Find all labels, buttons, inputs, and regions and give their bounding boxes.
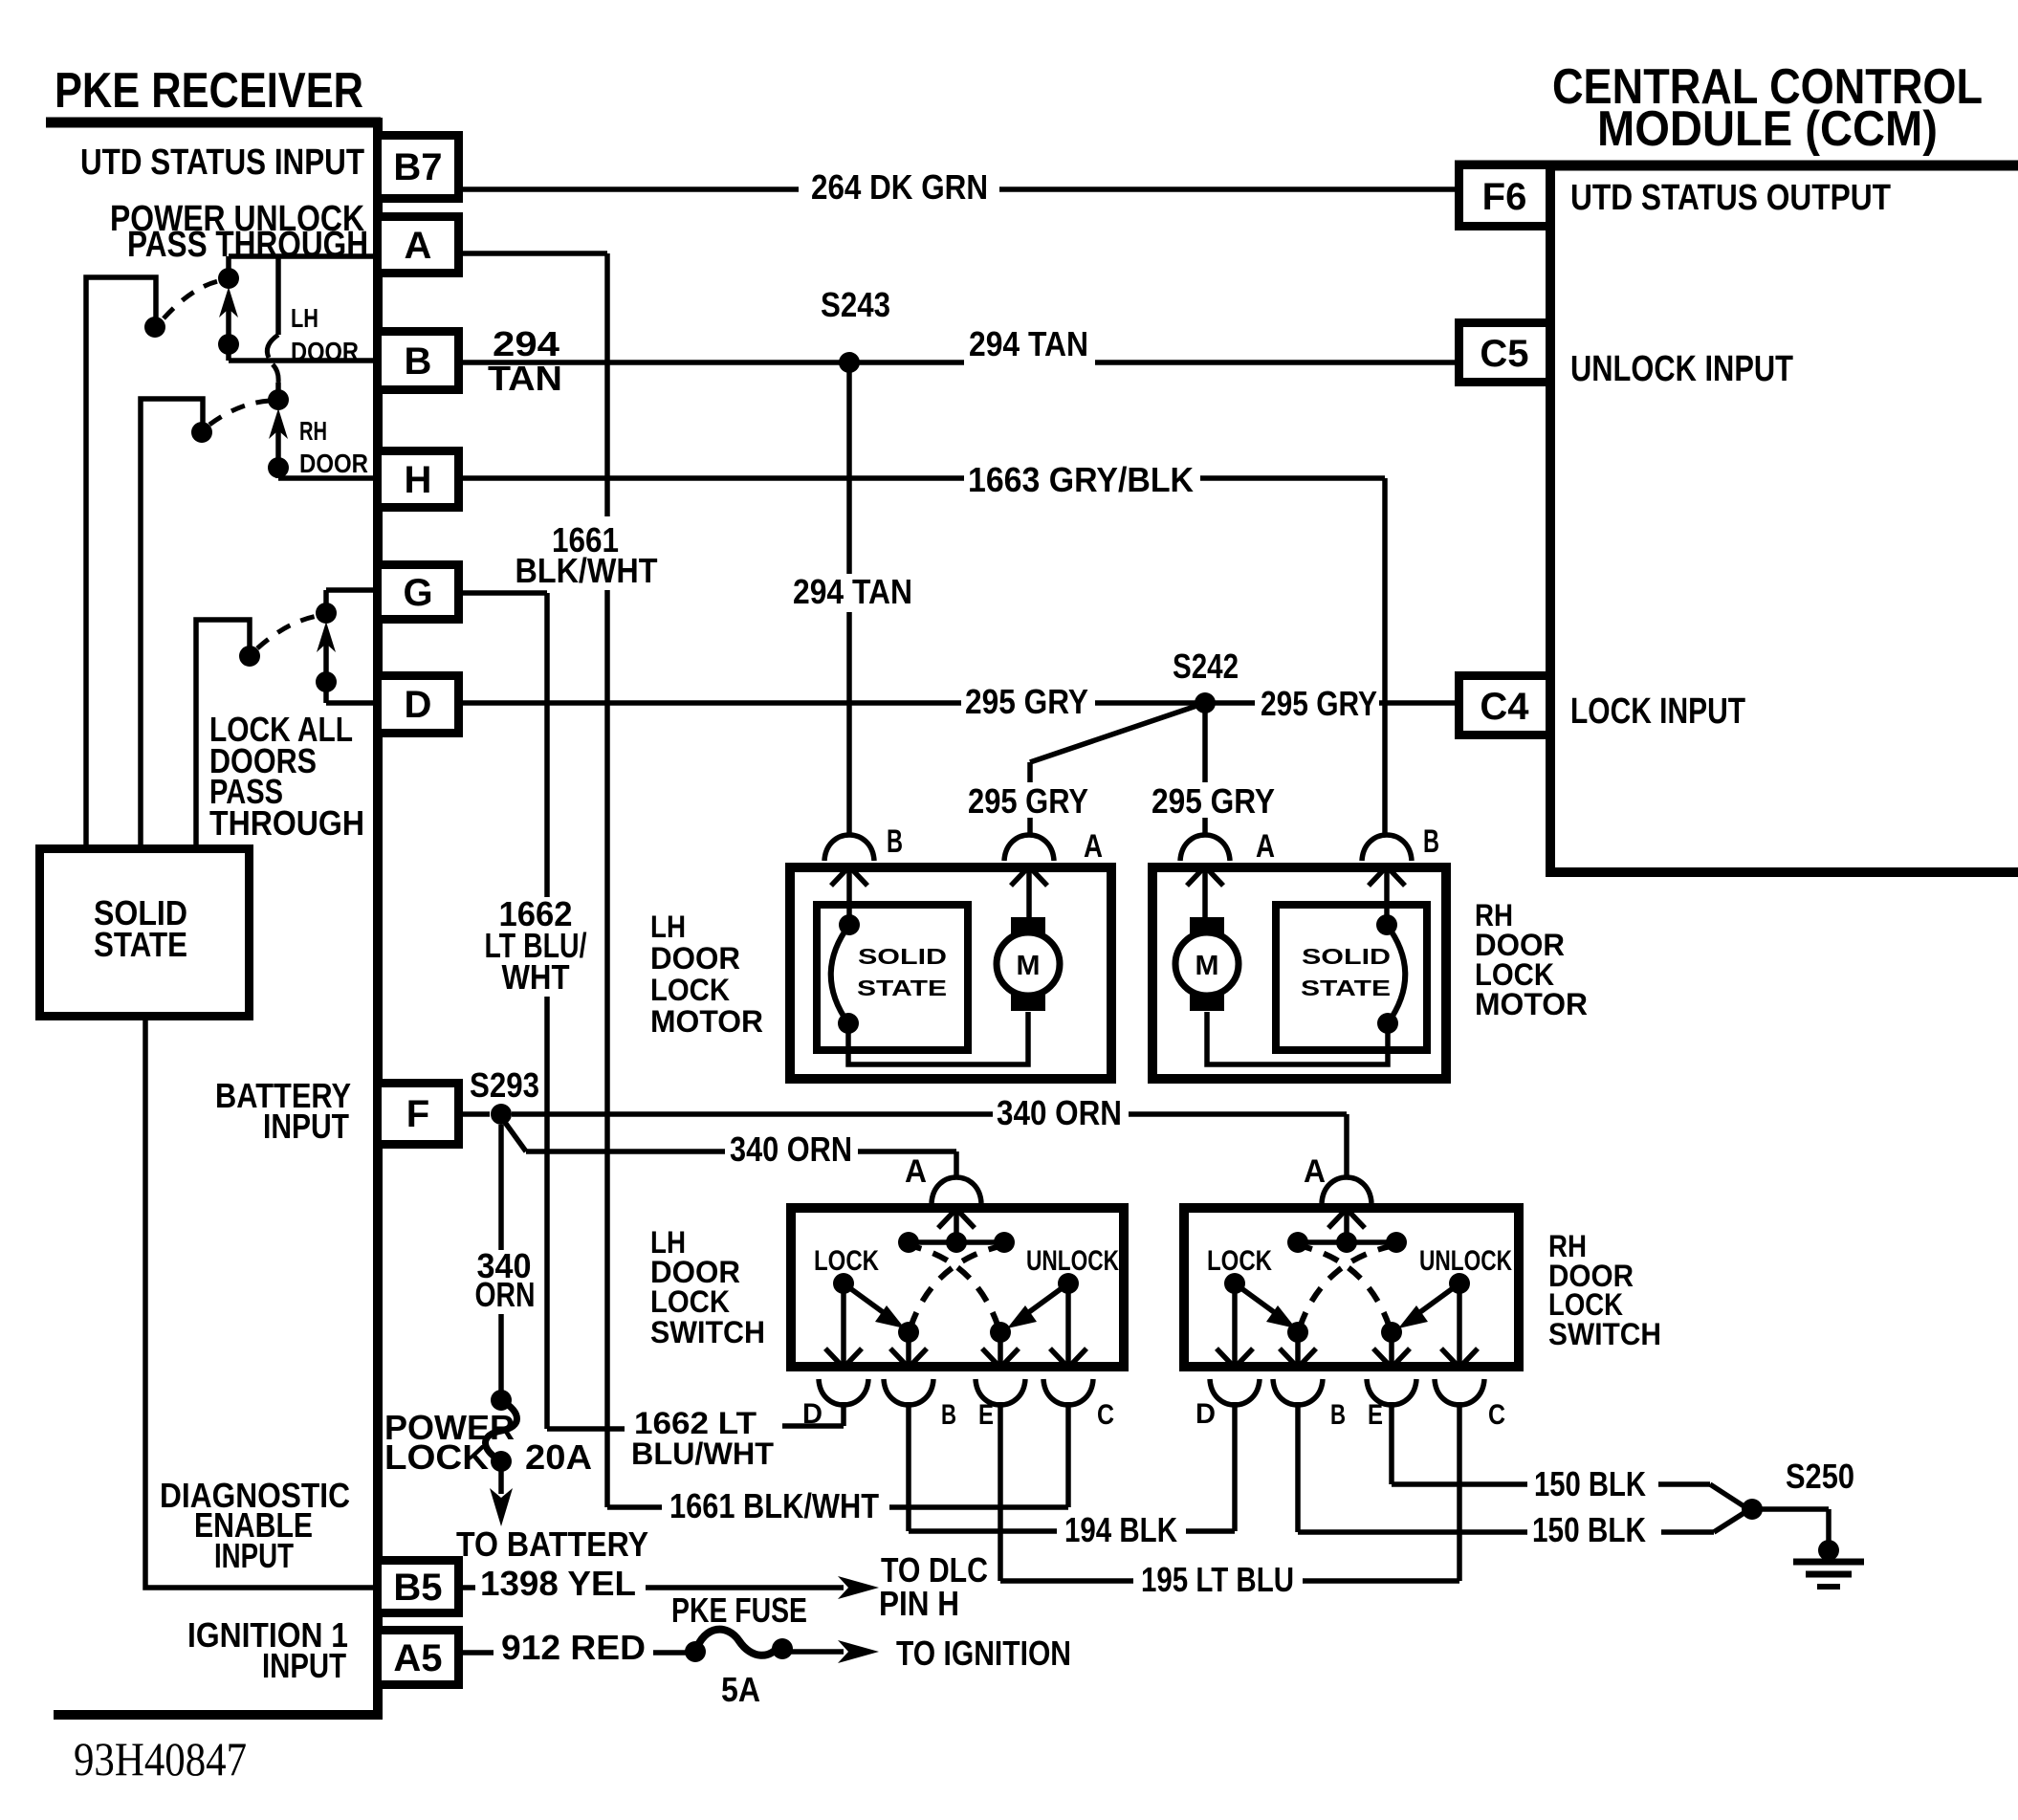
svg-text:TO BATTERY: TO BATTERY — [456, 1524, 648, 1564]
LH switch moving dot B — [898, 1322, 919, 1343]
svg-text:D: D — [1195, 1398, 1216, 1430]
svg-text:WHT: WHT — [502, 957, 570, 997]
RH motor pin A chevron — [1187, 866, 1223, 886]
wire S250 to ground — [1760, 1506, 1829, 1512]
lock-all lower dot — [316, 671, 337, 692]
svg-text:1398 YEL: 1398 YEL — [480, 1564, 636, 1603]
svg-text:150 BLK: 150 BLK — [1534, 1464, 1646, 1503]
svg-text:M: M — [1017, 951, 1041, 981]
svg-text:B: B — [1423, 823, 1439, 860]
svg-text:150 BLK: 150 BLK — [1532, 1510, 1646, 1549]
LH switch dashed throw left — [910, 1246, 1000, 1327]
svg-text:ORN: ORN — [475, 1275, 536, 1314]
ground symbol — [1818, 1540, 1839, 1561]
svg-text:S243: S243 — [821, 285, 890, 324]
PKE receiver connector bus — [373, 118, 383, 1715]
svg-text:A: A — [405, 225, 432, 267]
svg-text:TO IGNITION: TO IGNITION — [896, 1634, 1071, 1673]
svg-text:264 DK GRN: 264 DK GRN — [811, 167, 988, 207]
connector pin F6 — [1459, 165, 1550, 227]
svg-text:DOOR: DOOR — [650, 941, 740, 976]
wire 340 ORN down to fuse — [498, 1125, 504, 1250]
RH motor M motor — [1190, 917, 1224, 939]
LH switch pin C stem — [1065, 1283, 1071, 1367]
wire 1661 BLK/WHT from pin A — [463, 251, 607, 256]
wire 150 BLK lower — [1295, 1402, 1301, 1532]
LH door lock switch box — [791, 1208, 1124, 1367]
svg-text:STATE: STATE — [857, 976, 947, 1000]
svg-text:THROUGH: THROUGH — [209, 803, 364, 843]
svg-text:MODULE (CCM): MODULE (CCM) — [1597, 101, 1938, 157]
wire 1663 GRY/BLK — [463, 475, 964, 481]
svg-text:E: E — [1368, 1399, 1383, 1431]
splice S242 — [1195, 692, 1216, 713]
RH motor switch lower dot — [1377, 1013, 1398, 1034]
lock-all switch contact dot — [316, 603, 337, 624]
RH door lock motor box — [1152, 867, 1446, 1079]
RH door switch pivot dot — [191, 422, 212, 443]
svg-text:295 GRY: 295 GRY — [1152, 781, 1275, 821]
CCM connector bus — [1546, 161, 1555, 872]
RH motor pin A bump — [1180, 835, 1230, 861]
LH motor pin B chevron — [831, 866, 867, 886]
svg-text:295 GRY: 295 GRY — [965, 682, 1088, 721]
wire 1662 LT BLU/WHT from pin G — [463, 590, 547, 596]
svg-text:STATE: STATE — [1301, 976, 1391, 1000]
RH switch UNLOCK contact dot — [1449, 1273, 1470, 1294]
LH motor M motor — [1011, 917, 1045, 939]
wire 1398 YEL — [463, 1585, 475, 1590]
connector pin B — [378, 332, 459, 390]
svg-text:295 GRY: 295 GRY — [1261, 684, 1377, 723]
connector pin B5 — [378, 1561, 459, 1613]
svg-text:B7: B7 — [393, 146, 442, 188]
svg-text:INPUT: INPUT — [214, 1536, 294, 1575]
wire 295 GRY to LH motor A — [1030, 703, 1205, 762]
svg-text:UNLOCK INPUT: UNLOCK INPUT — [1570, 349, 1793, 389]
RH switch pin A bump — [1322, 1177, 1371, 1203]
svg-text:MOTOR: MOTOR — [650, 1004, 763, 1039]
svg-text:SOLID: SOLID — [1302, 944, 1391, 969]
LH motor pin B bump — [824, 835, 874, 861]
connector pin B7 — [378, 136, 459, 199]
connector pin H — [378, 451, 459, 508]
RH switch pin E stem — [1389, 1332, 1394, 1367]
PKE receiver bottom edge — [54, 1710, 383, 1720]
RH motor inner solid state box — [1276, 905, 1427, 1050]
LH switch pin A chevron — [938, 1209, 975, 1228]
wire 1661 BLK/WHT bottom — [607, 1504, 662, 1510]
LH switch UNLOCK contact dot — [1058, 1273, 1079, 1294]
connector pin G — [378, 565, 459, 620]
wire 295 GRY pin D — [463, 700, 961, 706]
RH switch contact bar — [1298, 1239, 1396, 1245]
svg-text:PKE FUSE: PKE FUSE — [671, 1590, 807, 1630]
svg-text:G: G — [403, 572, 432, 614]
LH door lock motor box — [790, 867, 1111, 1079]
svg-text:20A: 20A — [525, 1437, 592, 1477]
wire hop squiggle at B wire — [267, 335, 278, 358]
lock-all switch pivot dot — [239, 646, 260, 667]
LH switch dashed throw right — [912, 1246, 998, 1327]
wire to RH contact dot — [275, 383, 281, 391]
LH motor pin A bump — [1004, 835, 1054, 861]
wire 295 GRY to RH motor A — [1202, 711, 1208, 782]
RH motor pin B bump — [1362, 835, 1412, 861]
LH motor switch upper dot — [839, 914, 860, 935]
RH door lower dot — [268, 457, 289, 478]
wire 294 TAN pin B — [463, 360, 964, 365]
RH motor internal wire — [1207, 1012, 1388, 1064]
svg-text:S293: S293 — [470, 1065, 539, 1105]
svg-text:1662 LT: 1662 LT — [634, 1406, 757, 1440]
wire 1662 LT BLU/WHT bottom — [547, 1426, 625, 1432]
LH door switch contact dot — [218, 268, 239, 289]
svg-text:D: D — [405, 684, 432, 726]
svg-text:340 ORN: 340 ORN — [730, 1129, 852, 1169]
LH motor switch arc — [831, 925, 849, 1023]
splice S243 — [839, 352, 860, 373]
svg-text:UNLOCK: UNLOCK — [1419, 1245, 1512, 1277]
svg-text:DOOR: DOOR — [299, 449, 368, 478]
svg-text:C4: C4 — [1480, 686, 1529, 728]
LH door switch dashed arm — [164, 281, 218, 318]
svg-text:B: B — [941, 1399, 956, 1431]
svg-text:B: B — [887, 823, 903, 860]
svg-text:294: 294 — [493, 324, 559, 363]
LH switch contact bar — [909, 1239, 1004, 1245]
svg-text:UTD STATUS INPUT: UTD STATUS INPUT — [80, 143, 364, 183]
svg-text:LOCK: LOCK — [1207, 1245, 1272, 1277]
splice S293 — [491, 1104, 512, 1125]
svg-text:294 TAN: 294 TAN — [969, 324, 1088, 363]
svg-text:1663 GRY/BLK: 1663 GRY/BLK — [968, 460, 1194, 499]
RH switch pin C stem — [1457, 1283, 1462, 1367]
svg-text:PKE RECEIVER: PKE RECEIVER — [55, 63, 363, 119]
svg-text:F6: F6 — [1482, 176, 1527, 218]
LH switch pin A bump — [932, 1177, 981, 1203]
wire lock-all pivot to solid state — [196, 620, 250, 844]
svg-text:BLK/WHT: BLK/WHT — [515, 551, 658, 590]
wire solid state to pin B5 — [145, 1020, 378, 1588]
wire 194 BLK — [906, 1402, 911, 1531]
RH switch dashed throw right — [1302, 1246, 1390, 1327]
LH motor switch lower dot — [838, 1013, 859, 1034]
RH motor switch upper dot — [1376, 914, 1397, 935]
lock-all switch dashed arm — [257, 616, 318, 648]
svg-text:MOTOR: MOTOR — [1475, 987, 1588, 1021]
wire lock-all to pin D — [323, 682, 329, 703]
wire 295 GRY to C4 — [1213, 700, 1255, 706]
LH switch UNLOCK arrow — [1022, 1283, 1068, 1317]
RH switch pin A chevron — [1328, 1209, 1365, 1228]
RH motor switch arc — [1387, 925, 1405, 1023]
wire pin F to S293 — [463, 1111, 490, 1117]
connector pin C4 — [1459, 676, 1550, 735]
LH door switch pivot dot — [144, 317, 165, 338]
splice S250 — [1742, 1499, 1763, 1520]
wire contact to pin A line — [226, 256, 231, 271]
lock-all arrow — [323, 641, 329, 675]
LH door lower dot — [218, 334, 239, 355]
svg-text:294 TAN: 294 TAN — [793, 572, 912, 611]
RH switch dashed throw left — [1300, 1246, 1391, 1327]
wire contact to pin G — [323, 590, 329, 605]
LH motor inner solid state box — [817, 905, 968, 1050]
svg-text:LH: LH — [650, 910, 686, 944]
svg-text:S250: S250 — [1786, 1457, 1854, 1496]
svg-text:RH: RH — [299, 416, 327, 446]
wire LH pivot to solid state — [86, 277, 156, 844]
svg-text:LOCK INPUT: LOCK INPUT — [1570, 691, 1745, 732]
wire LH door to pin B — [226, 344, 231, 361]
RH door switch contact dot — [268, 389, 289, 410]
svg-text:M: M — [1195, 951, 1219, 981]
svg-text:C: C — [1097, 1399, 1114, 1431]
LH switch moving dot E — [990, 1322, 1011, 1343]
LH switch pin B stem — [906, 1332, 911, 1367]
connector pin A5 — [378, 1631, 459, 1685]
arrow to ignition — [790, 1649, 844, 1655]
svg-text:SWITCH: SWITCH — [1548, 1317, 1661, 1351]
svg-text:LH: LH — [291, 303, 318, 333]
connector pin F — [378, 1084, 459, 1145]
svg-text:295 GRY: 295 GRY — [968, 781, 1088, 821]
svg-text:SOLID: SOLID — [858, 944, 947, 969]
CCM top edge — [1455, 161, 2018, 171]
LH door arrow — [226, 306, 231, 340]
RH switch moving dot B — [1287, 1322, 1308, 1343]
svg-text:A: A — [1304, 1153, 1326, 1190]
wire branch down to RH contact — [275, 256, 281, 335]
svg-text:5A: 5A — [721, 1670, 760, 1709]
LH motor pin A chevron — [1011, 866, 1047, 886]
svg-text:UTD STATUS OUTPUT: UTD STATUS OUTPUT — [1570, 178, 1891, 218]
svg-text:E: E — [978, 1399, 994, 1431]
wire 912 RED — [463, 1650, 494, 1656]
svg-text:912 RED: 912 RED — [501, 1628, 646, 1667]
LH motor internal wire — [848, 1012, 1028, 1064]
svg-text:194 BLK: 194 BLK — [1064, 1510, 1177, 1549]
connector pin A — [378, 217, 459, 274]
connector pin D — [378, 676, 459, 734]
RH switch LOCK arrow — [1235, 1283, 1281, 1317]
svg-text:LOCK: LOCK — [650, 1284, 730, 1319]
svg-text:A: A — [1256, 828, 1275, 865]
RH motor pin B chevron — [1369, 866, 1405, 886]
connector pin C5 — [1459, 323, 1550, 383]
svg-text:C5: C5 — [1480, 333, 1528, 375]
RH switch pin B stem — [1295, 1332, 1301, 1367]
svg-text:195 LT BLU: 195 LT BLU — [1141, 1560, 1294, 1599]
solid state module box — [40, 849, 250, 1017]
arrow to battery — [498, 1461, 504, 1494]
svg-text:A: A — [1084, 828, 1103, 865]
wire 264 DK GRN — [463, 186, 799, 192]
svg-text:340 ORN: 340 ORN — [997, 1093, 1122, 1132]
svg-text:LOCK: LOCK — [814, 1245, 879, 1277]
RH switch pin D stem — [1232, 1283, 1238, 1367]
svg-text:B5: B5 — [393, 1567, 442, 1609]
svg-text:B: B — [1330, 1399, 1346, 1431]
PKE receiver top underline — [46, 118, 381, 128]
svg-text:STATE: STATE — [94, 925, 187, 964]
svg-text:INPUT: INPUT — [263, 1107, 349, 1146]
svg-text:A5: A5 — [393, 1637, 442, 1679]
svg-text:INPUT: INPUT — [262, 1646, 346, 1685]
svg-text:C: C — [1488, 1399, 1505, 1431]
LH switch LOCK arrow — [844, 1283, 889, 1317]
RH switch moving dot E — [1381, 1322, 1402, 1343]
RH switch LOCK contact dot — [1224, 1273, 1245, 1294]
LH switch pin E stem — [998, 1332, 1003, 1367]
wire RH door to pin H — [275, 468, 281, 478]
svg-text:F: F — [406, 1093, 429, 1135]
wire RH pivot to solid state — [141, 399, 203, 844]
LH switch pin bumps — [819, 1379, 868, 1405]
svg-text:LOCK: LOCK — [384, 1437, 489, 1477]
svg-text:B: B — [405, 340, 432, 383]
LH switch LOCK contact dot — [833, 1273, 854, 1294]
svg-text:PIN H: PIN H — [879, 1584, 959, 1623]
LH switch pin D stem — [841, 1283, 846, 1367]
wire 150 BLK upper — [1389, 1402, 1394, 1484]
RH switch UNLOCK arrow — [1414, 1283, 1459, 1317]
RH door lock switch box — [1184, 1208, 1519, 1367]
svg-text:TAN: TAN — [488, 359, 562, 398]
wire 340 ORN upper — [512, 1111, 993, 1117]
svg-text:1661 BLK/WHT: 1661 BLK/WHT — [669, 1486, 879, 1525]
svg-text:BLU/WHT: BLU/WHT — [631, 1436, 774, 1471]
RH switch pin bumps — [1210, 1379, 1260, 1405]
svg-text:S242: S242 — [1173, 647, 1239, 686]
wire 195 LT BLU — [998, 1402, 1003, 1581]
POWER LOCK fuse 20A — [491, 1390, 512, 1411]
svg-text:93H40847: 93H40847 — [74, 1732, 247, 1786]
svg-text:A: A — [905, 1153, 927, 1190]
wire 294 TAN down to LH motor — [846, 362, 852, 574]
wire 340 ORN lower — [501, 1117, 526, 1151]
CCM bottom edge — [1546, 867, 2018, 877]
svg-text:LOCK: LOCK — [650, 973, 730, 1007]
RH door arrow — [275, 428, 281, 461]
RH door switch dashed arm — [209, 401, 270, 425]
svg-text:UNLOCK: UNLOCK — [1026, 1245, 1119, 1277]
svg-text:SWITCH: SWITCH — [650, 1315, 765, 1349]
svg-text:H: H — [405, 459, 432, 501]
